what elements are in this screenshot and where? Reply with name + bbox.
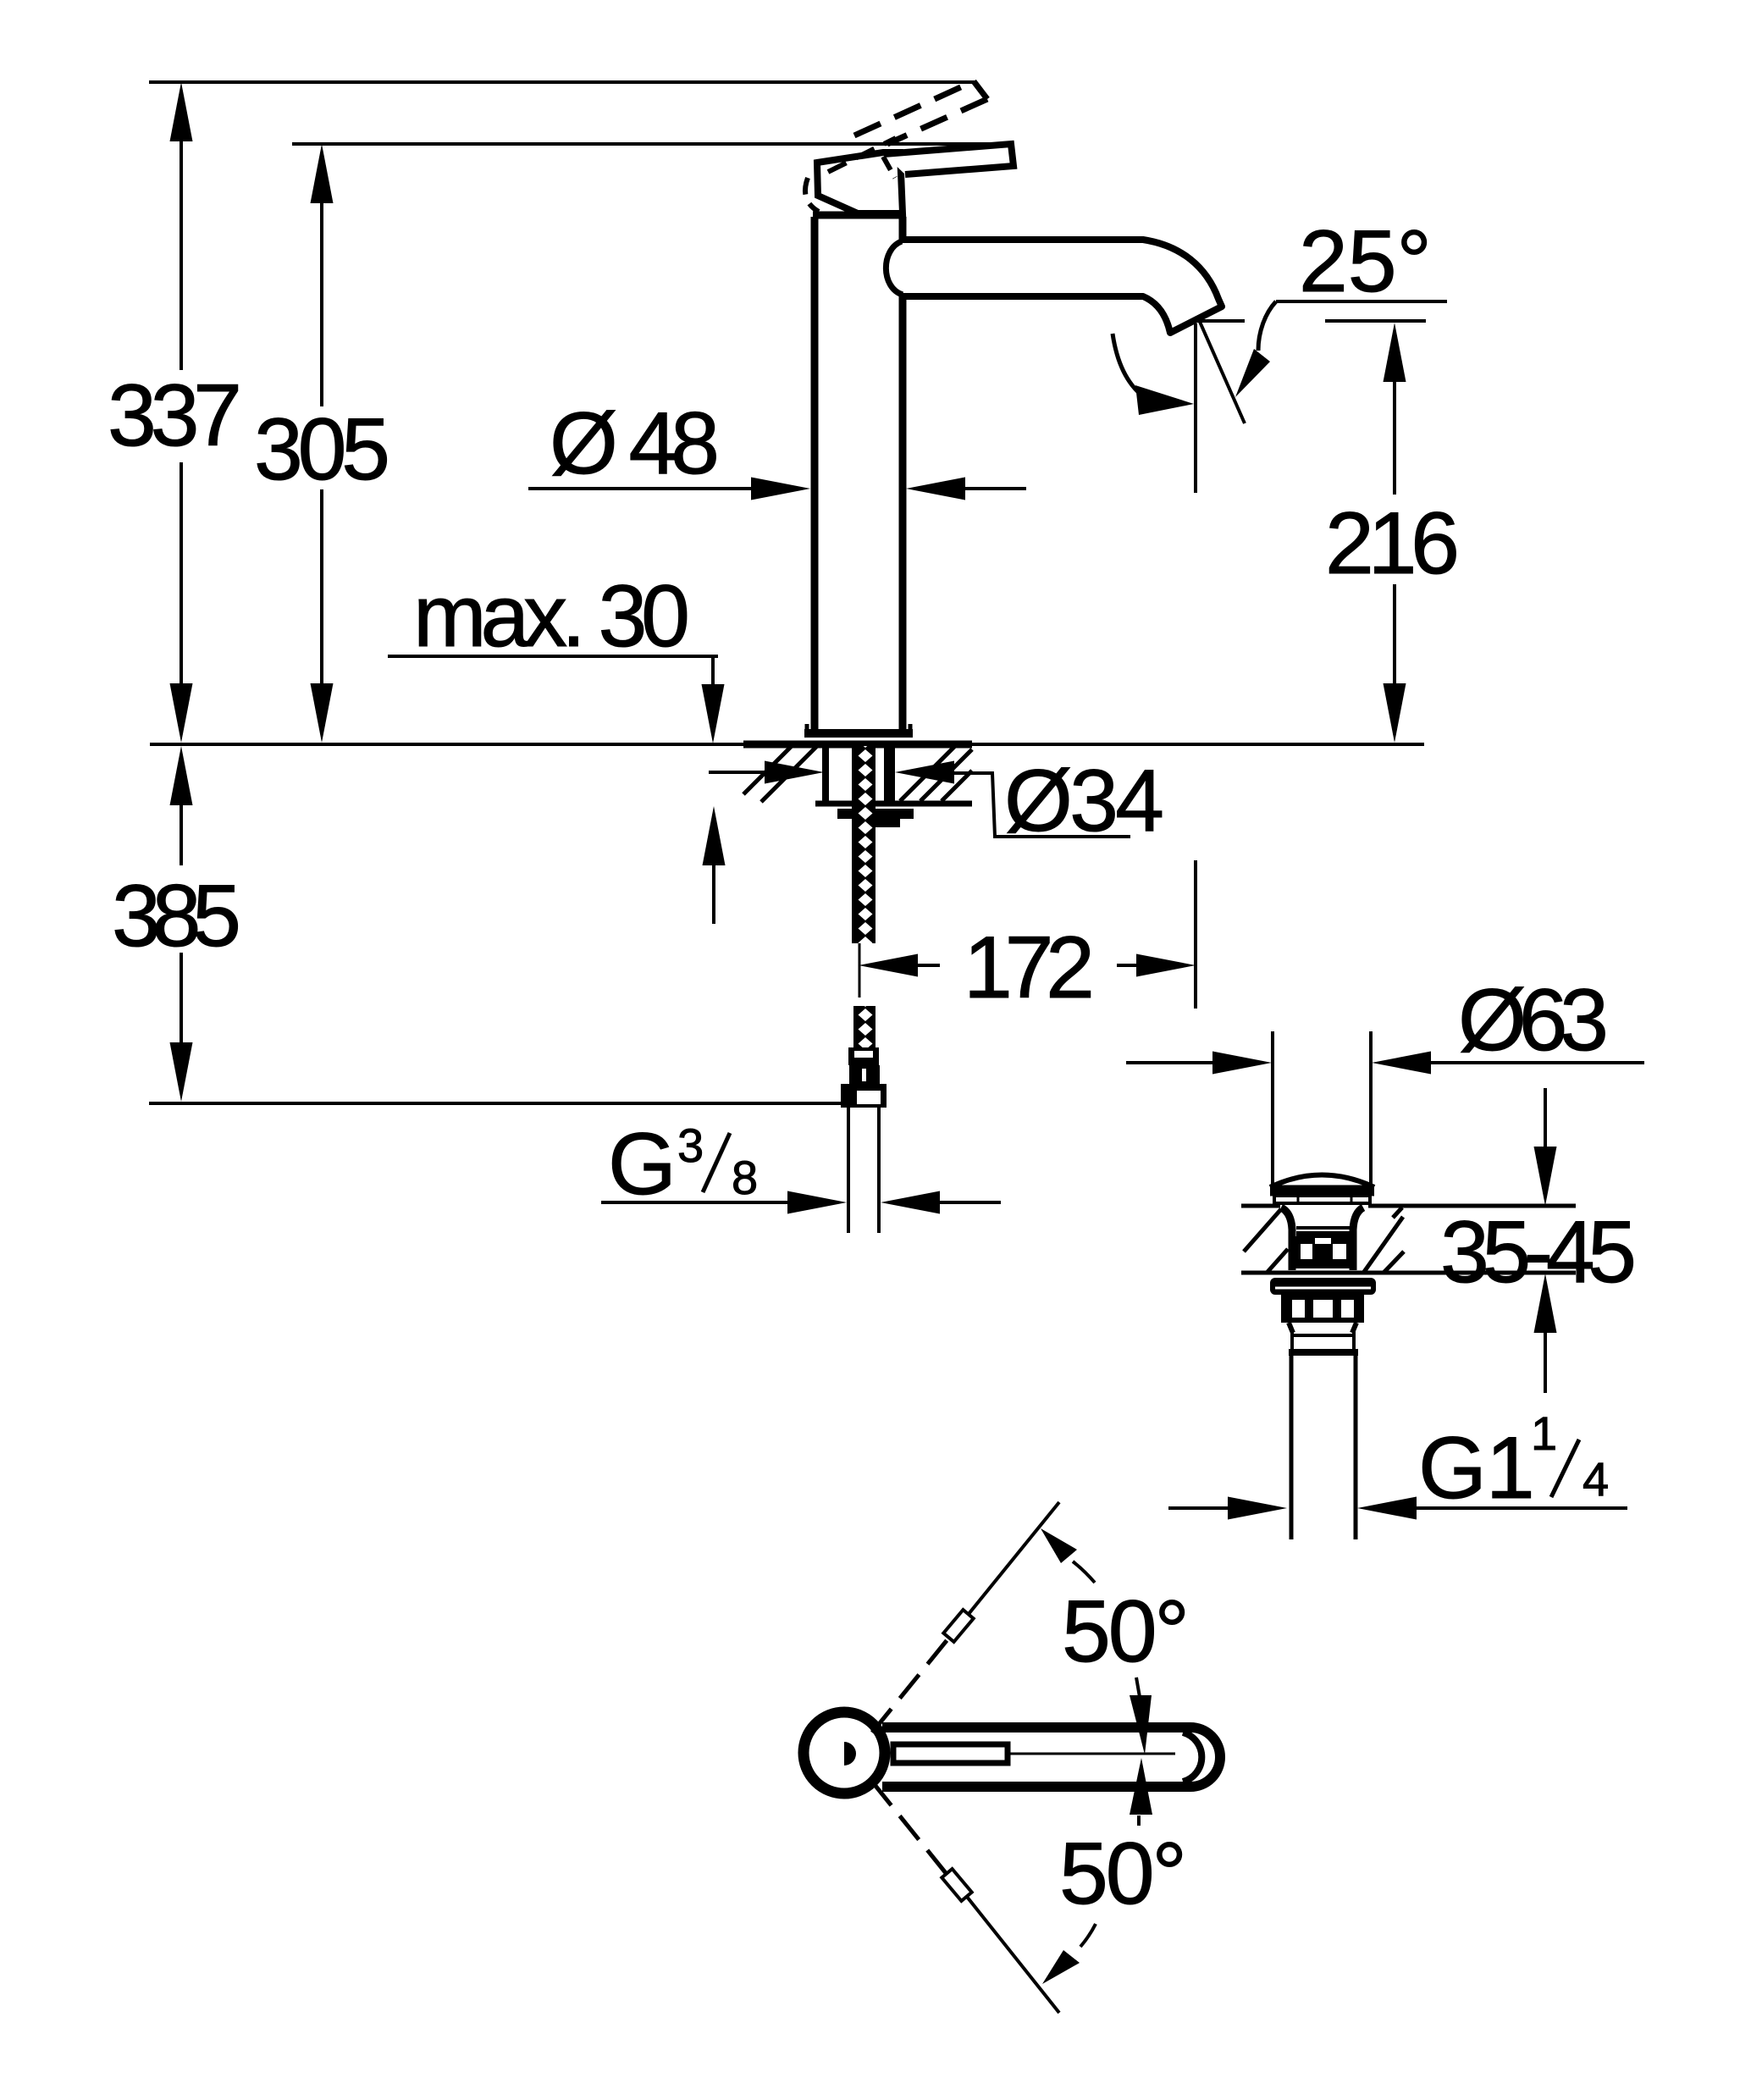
- svg-text:50°: 50°: [1059, 1825, 1186, 1923]
- drain body windows: [1294, 1236, 1353, 1268]
- drain cap ring ticks: [1298, 1196, 1351, 1203]
- hose end upper nut: [849, 1065, 880, 1084]
- swing line upper dashed: [872, 1639, 948, 1732]
- arrow 305 top: [311, 144, 334, 203]
- svg-text:25°: 25°: [1299, 213, 1431, 311]
- handle base bar: [813, 212, 903, 219]
- drain body inner lines: [1296, 1226, 1350, 1230]
- sink deck line top: [1241, 1204, 1576, 1208]
- drain taper ring: [1289, 1323, 1356, 1333]
- handle angle arrow lower: [1137, 1815, 1141, 1826]
- max 30 leader underline: [388, 655, 718, 658]
- dimension G3/8 arrows: [601, 1201, 796, 1204]
- baseline 385 bottom: [149, 1102, 841, 1105]
- dimension diameter 63 arrows: [1126, 1061, 1219, 1064]
- swing line lower dashed: [872, 1782, 946, 1873]
- svg-text:216: 216: [1325, 495, 1459, 593]
- lever dashed raised position tip: [974, 81, 987, 99]
- lever solid closed position: [884, 144, 1014, 174]
- dimension 305 line: [320, 196, 323, 691]
- G 3/8 connector tube: [848, 1108, 879, 1233]
- swing arrow lower: [1080, 1924, 1096, 1947]
- 25 degree arc left with arrowhead: [1113, 334, 1143, 396]
- arrow 305 bottom: [311, 683, 334, 743]
- swing line upper solid: [969, 1502, 1059, 1614]
- faucet column left edge: [811, 217, 819, 730]
- svg-text:305: 305: [254, 401, 389, 499]
- 25 degree horizontal reference line: [1276, 300, 1447, 303]
- svg-text:50°: 50°: [1062, 1583, 1189, 1681]
- arrow 385 bottom: [170, 1042, 193, 1102]
- lever pivot junction: [883, 157, 895, 178]
- swing line lower solid: [967, 1897, 1059, 2013]
- svg-text:G: G: [608, 1115, 676, 1213]
- deck section thick border: [743, 741, 972, 749]
- hidden dashed arc at handle left: [805, 178, 819, 212]
- svg-text:8: 8: [732, 1151, 758, 1204]
- max 30 arrow below deck: [712, 859, 715, 924]
- swing arrow upper: [1073, 1561, 1095, 1583]
- dimension diameter 34 arrows: [709, 771, 773, 774]
- faucet column right edge: [899, 217, 907, 730]
- drain castellated nut: [1281, 1295, 1364, 1323]
- tick 172 right: [1194, 860, 1197, 1009]
- drain collar line: [1289, 1349, 1358, 1356]
- extension line 305 level: [292, 142, 1012, 146]
- svg-text:Ø63: Ø63: [1458, 971, 1608, 1069]
- mounting hole left wall: [822, 746, 829, 802]
- braided hose upper segment: [852, 746, 875, 943]
- hose break centerline: [859, 943, 861, 997]
- 25 degree slanted line: [1200, 322, 1245, 423]
- drain flange nut: [1270, 1278, 1376, 1295]
- handle angle arrow upper: [1136, 1677, 1140, 1697]
- top view faucet body circle: [804, 1712, 885, 1793]
- drain cap second ring: [1274, 1196, 1370, 1203]
- arrow 337 bottom: [170, 683, 193, 743]
- svg-text:4: 4: [1583, 1452, 1609, 1506]
- arrow 385 top: [170, 746, 193, 805]
- dimension 35-45 lower arrow: [1544, 1326, 1547, 1393]
- extension line top (337 level): [149, 80, 975, 84]
- drain body neck: [1281, 1207, 1292, 1270]
- svg-text:Ø 48: Ø 48: [550, 395, 719, 493]
- spout outline: [903, 240, 1222, 333]
- lever dashed raised position top edge: [854, 81, 974, 135]
- svg-text:1: 1: [1531, 1406, 1557, 1460]
- swing line lower box mark: [942, 1869, 971, 1901]
- sink deck line bottom: [1241, 1271, 1576, 1275]
- countertop deck line: [150, 743, 1424, 746]
- deck hatching right of hole: [900, 746, 972, 801]
- dimension 337 line: [180, 135, 183, 691]
- 25 degree arc right with arrowhead: [1258, 301, 1276, 351]
- faucet base plate: [804, 729, 913, 738]
- handle body: [817, 152, 903, 213]
- top view slot centerline: [1008, 1753, 1175, 1755]
- deck bottom section line: [815, 801, 972, 807]
- top view center mark: [844, 1742, 856, 1766]
- svg-text:385: 385: [112, 867, 240, 965]
- mounting nut under deck: [837, 809, 914, 819]
- deck hatching left of hole: [743, 746, 817, 802]
- hidden dashed diagonal across handle body: [828, 138, 896, 172]
- drain tailpipe: [1291, 1356, 1356, 1539]
- extension line 216 top reference: [1197, 319, 1426, 323]
- top view capsule inner arc: [1183, 1732, 1201, 1782]
- hose end collar: [848, 1047, 879, 1065]
- top view handle slot: [893, 1744, 1008, 1763]
- dimension 35-45 upper arrow: [1544, 1088, 1547, 1153]
- drain cap rim: [1270, 1185, 1374, 1196]
- arrow 337 top: [170, 82, 193, 141]
- hose end hex nut: [841, 1084, 887, 1108]
- 25 degree vertical reference line below spout tip: [1194, 323, 1197, 493]
- top view handle capsule: [882, 1727, 1220, 1787]
- dimension 385 line: [180, 799, 183, 1048]
- spout back bulge: [886, 241, 903, 295]
- svg-text:max. 30: max. 30: [413, 567, 689, 666]
- swing line upper box mark: [943, 1610, 973, 1642]
- dimension G1 1/4 arrows: [1168, 1506, 1236, 1510]
- dimension 172 left arrow: [913, 964, 940, 967]
- svg-text:G1: G1: [1418, 1419, 1534, 1517]
- svg-text:337: 337: [108, 367, 241, 465]
- svg-text:35-45: 35-45: [1440, 1203, 1636, 1301]
- max 30 arrow above deck: [711, 656, 715, 691]
- threaded shank left edge: [852, 746, 859, 802]
- drain cap dome: [1270, 1175, 1374, 1188]
- sink deck hatching: [1244, 1207, 1404, 1273]
- dimension 216 line: [1393, 375, 1396, 690]
- braided hose lower segment: [853, 1006, 875, 1047]
- svg-text:3: 3: [677, 1119, 704, 1172]
- dimension line diameter 48: [528, 487, 758, 490]
- mounting hole right wall: [884, 746, 895, 802]
- svg-text:172: 172: [964, 919, 1094, 1017]
- drain extension lines (diameter 63): [1273, 1031, 1371, 1185]
- arrow 216 top: [1384, 323, 1406, 382]
- lever dashed raised position bottom edge: [887, 99, 987, 144]
- arrow 216 bottom: [1384, 683, 1406, 743]
- dimension 172 right arrow: [1117, 964, 1143, 967]
- svg-text:Ø34: Ø34: [1004, 752, 1163, 850]
